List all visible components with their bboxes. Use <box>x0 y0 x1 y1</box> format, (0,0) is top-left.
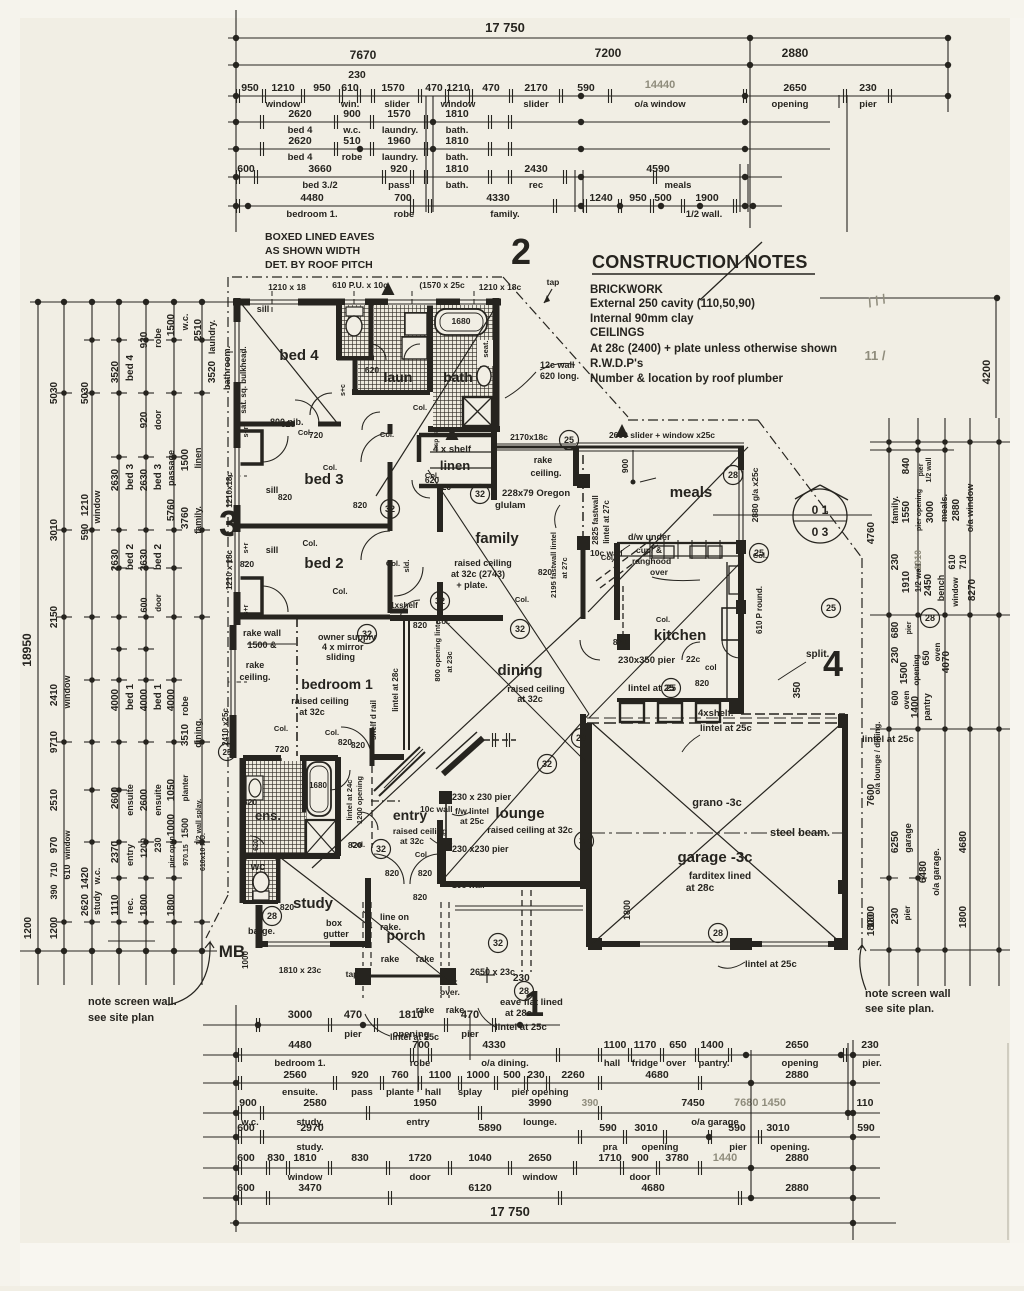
svg-text:raised ceiling at 32c: raised ceiling at 32c <box>487 825 573 835</box>
lounge left lower wall <box>437 820 443 884</box>
svg-text:pier: pier <box>344 1029 362 1040</box>
bedroom1 bottom area walls <box>243 755 281 761</box>
svg-text:8270: 8270 <box>967 578 978 601</box>
ensuite hatched floor <box>246 761 302 853</box>
svg-text:500: 500 <box>503 1069 521 1081</box>
svg-text:ensuite: ensuite <box>153 784 163 816</box>
svg-text:2580: 2580 <box>303 1097 327 1109</box>
svg-text:o/a garage.: o/a garage. <box>931 848 941 896</box>
svg-text:4330: 4330 <box>482 1039 506 1051</box>
svg-text:raised ceiling: raised ceiling <box>393 826 447 836</box>
svg-text:1550: 1550 <box>901 500 912 523</box>
svg-text:rake: rake <box>246 660 265 670</box>
svg-text:7200: 7200 <box>595 46 622 60</box>
svg-text:1210: 1210 <box>446 82 470 94</box>
svg-text:R.W.D.P's: R.W.D.P's <box>590 358 643 370</box>
svg-text:820: 820 <box>243 797 257 807</box>
hall family door arc <box>394 567 423 596</box>
family top window wall <box>497 446 576 449</box>
svg-text:11 /: 11 / <box>865 348 886 363</box>
svg-text:door: door <box>409 1172 430 1183</box>
garage window bottom <box>640 941 730 948</box>
svg-text:rake: rake <box>416 1005 435 1015</box>
svg-text:230: 230 <box>861 1039 879 1051</box>
dining X diagonal b extended <box>312 616 582 868</box>
svg-text:1500: 1500 <box>180 448 191 471</box>
svg-text:28: 28 <box>713 928 723 938</box>
svg-text:470: 470 <box>344 1009 362 1021</box>
kitchen diagonal <box>589 562 741 718</box>
svg-text:bed 3./2: bed 3./2 <box>302 180 337 191</box>
svg-text:1800: 1800 <box>622 900 632 920</box>
svg-text:sill: sill <box>257 304 270 314</box>
svg-text:lintel at 28c: lintel at 28c <box>391 668 400 712</box>
svg-text:lounge: lounge <box>495 805 544 822</box>
svg-text:shelf d rail: shelf d rail <box>369 700 378 740</box>
svg-text:1/2 wall: 1/2 wall <box>926 457 933 482</box>
svg-text:lintel at 25c: lintel at 25c <box>862 734 914 745</box>
svg-text:At 28c (2400) + plate unless: At 28c (2400) + plate unless otherwise s… <box>590 343 837 355</box>
svg-text:970.15: 970.15 <box>183 844 190 866</box>
ens wc door arc <box>250 836 264 844</box>
svg-text:pier.: pier. <box>862 1058 882 1069</box>
svg-text:ranghood: ranghood <box>632 556 671 566</box>
svg-text:2600: 2600 <box>110 786 121 809</box>
svg-text:7680 1450: 7680 1450 <box>734 1097 786 1109</box>
svg-text:28: 28 <box>576 733 586 743</box>
bed4 wc divider <box>336 302 342 360</box>
svg-text:bench: bench <box>936 575 946 602</box>
corner diagonal 2 <box>700 242 762 300</box>
svg-text:820: 820 <box>695 678 709 688</box>
svg-text:farditex lined: farditex lined <box>689 871 751 882</box>
svg-text:32: 32 <box>475 489 485 499</box>
svg-text:bed 1: bed 1 <box>153 684 164 711</box>
svg-text:28: 28 <box>267 911 277 921</box>
svg-text:820: 820 <box>418 868 432 878</box>
svg-text:350: 350 <box>792 681 803 698</box>
svg-text:Col.: Col. <box>332 587 347 596</box>
left outer wall upper <box>234 298 241 625</box>
garage X diagonal b <box>592 723 842 944</box>
svg-text:sill: sill <box>266 485 279 495</box>
svg-text:32: 32 <box>515 624 525 634</box>
svg-text:590: 590 <box>599 1122 617 1134</box>
svg-text:CONSTRUCTION NOTES: CONSTRUCTION NOTES <box>592 252 808 272</box>
svg-text:3760: 3760 <box>180 506 191 529</box>
svg-text:rec: rec <box>529 180 543 191</box>
svg-text:2620: 2620 <box>80 893 91 916</box>
svg-text:900: 900 <box>343 108 361 120</box>
svg-text:4680: 4680 <box>641 1182 665 1194</box>
svg-text:18950: 18950 <box>20 633 34 667</box>
ens bottom wall <box>243 853 340 859</box>
laundry hatched floor <box>374 305 427 390</box>
svg-text:tap: tap <box>547 277 560 287</box>
svg-text:610x10 P.U.: 610x10 P.U. <box>200 833 207 871</box>
svg-text:820: 820 <box>613 637 627 647</box>
lounge rake diagonal <box>440 714 589 883</box>
svg-text:bulk: bulk <box>440 977 458 987</box>
svg-text:5030: 5030 <box>80 381 91 404</box>
svg-text:at 23c: at 23c <box>445 651 454 672</box>
svg-text:390: 390 <box>49 884 59 899</box>
svg-text:230x350 pier: 230x350 pier <box>618 655 675 666</box>
svg-text:950: 950 <box>629 192 647 204</box>
svg-text:window: window <box>951 577 960 608</box>
wc bottom step wall <box>243 898 278 904</box>
svg-text:ceiling.: ceiling. <box>530 468 561 478</box>
svg-text:seat.: seat. <box>481 340 490 357</box>
svg-text:BRICKWORK: BRICKWORK <box>590 284 664 296</box>
svg-text:14440: 14440 <box>645 79 676 91</box>
svg-text:4xshelf.: 4xshelf. <box>698 708 733 719</box>
svg-text:1xshelf: 1xshelf <box>390 601 418 610</box>
svg-text:at 32c (2743): at 32c (2743) <box>451 569 505 579</box>
svg-text:s+c: s+c <box>340 384 347 396</box>
svg-text:passage: passage <box>166 450 176 486</box>
svg-text:610 P round.: 610 P round. <box>755 586 764 634</box>
svg-text:cup/ &: cup/ & <box>636 545 662 555</box>
svg-text:meals: meals <box>670 484 713 501</box>
entry double door arcs <box>374 854 404 884</box>
extra leader arrows <box>612 545 630 562</box>
svg-text:2630: 2630 <box>139 548 150 571</box>
svg-text:32: 32 <box>385 504 395 514</box>
svg-text:32: 32 <box>376 844 386 854</box>
svg-text:study: study <box>293 895 334 912</box>
svg-text:6120: 6120 <box>468 1182 492 1194</box>
svg-text:opening: opening <box>772 99 809 110</box>
svg-text:820: 820 <box>413 892 427 902</box>
leader arrows curved <box>168 942 214 1005</box>
svg-text:230: 230 <box>527 1069 545 1081</box>
svg-text:4070: 4070 <box>941 650 952 673</box>
svg-text:door: door <box>153 410 163 430</box>
svg-text:9710: 9710 <box>49 730 60 753</box>
kitchen right bench line <box>726 562 728 700</box>
svg-text:12c wall: 12c wall <box>540 360 575 370</box>
wc toilet <box>253 891 269 900</box>
svg-text:820: 820 <box>351 740 365 750</box>
svg-text:2450: 2450 <box>923 573 934 596</box>
svg-text:4760: 4760 <box>866 521 877 544</box>
svg-text:pass: pass <box>351 1087 373 1098</box>
svg-text:DET. BY ROOF PITCH: DET. BY ROOF PITCH <box>265 259 373 271</box>
svg-text:3520: 3520 <box>110 360 121 383</box>
svg-text:650: 650 <box>669 1039 687 1051</box>
svg-text:1950: 1950 <box>413 1097 437 1109</box>
svg-text:note screen wall: note screen wall <box>865 988 951 1000</box>
svg-text:f/w lintel: f/w lintel <box>455 806 489 816</box>
bath right outer wall <box>493 298 500 432</box>
svg-text:w.c.: w.c. <box>92 868 102 886</box>
svg-text:3010: 3010 <box>49 518 60 541</box>
svg-text:230 x 230 pier: 230 x 230 pier <box>452 792 512 802</box>
svg-text:bed 2: bed 2 <box>153 544 164 571</box>
svg-text:pantry: pantry <box>922 693 932 721</box>
svg-text:1720: 1720 <box>408 1152 432 1164</box>
svg-text:at 28c: at 28c <box>686 883 715 894</box>
scale circle 01 03 <box>793 489 847 543</box>
svg-text:robe: robe <box>410 1058 431 1069</box>
svg-text:lintel at 25c: lintel at 25c <box>745 959 797 970</box>
svg-text:4680: 4680 <box>958 830 969 853</box>
wc east wall <box>276 856 281 903</box>
svg-text:820: 820 <box>240 559 254 569</box>
svg-text:1810: 1810 <box>445 135 469 147</box>
ens tub divider <box>302 758 307 820</box>
svg-text:230: 230 <box>890 553 901 570</box>
svg-text:slider: slider <box>523 99 549 110</box>
svg-text:pier: pier <box>918 463 925 476</box>
wc hatched floor top <box>342 305 369 356</box>
rake wall 1500 arrow <box>247 643 296 645</box>
svg-text:door: door <box>154 594 163 612</box>
svg-text:1810 x 23c: 1810 x 23c <box>279 965 322 975</box>
svg-text:3780: 3780 <box>665 1152 689 1164</box>
svg-text:1100: 1100 <box>429 1069 452 1081</box>
svg-text:Col.: Col. <box>461 425 475 434</box>
window openings top wall <box>250 299 298 306</box>
svg-text:o/a lounge / dining.: o/a lounge / dining. <box>873 722 882 795</box>
lounge south window line <box>455 905 583 907</box>
svg-text:3660: 3660 <box>308 163 332 175</box>
svg-text:plante: plante <box>386 1087 414 1098</box>
svg-text:920: 920 <box>139 331 150 348</box>
svg-text:25: 25 <box>826 603 836 613</box>
svg-text:610: 610 <box>341 82 359 94</box>
svg-text:590: 590 <box>577 82 595 94</box>
family left wall segments <box>437 486 443 532</box>
outer wall top <box>233 299 501 306</box>
study bottom wall <box>259 941 366 947</box>
svg-text:s+r: s+r <box>243 542 250 553</box>
svg-text:entry: entry <box>406 1117 430 1128</box>
svg-text:3000: 3000 <box>925 500 936 523</box>
svg-text:2510: 2510 <box>49 788 60 811</box>
svg-text:1910: 1910 <box>913 550 923 570</box>
svg-text:4480: 4480 <box>288 1039 312 1051</box>
svg-text:lintel at 25c: lintel at 25c <box>495 1022 547 1033</box>
svg-text:Col.: Col. <box>425 471 439 480</box>
garage left wall <box>586 723 592 947</box>
svg-text:rec.: rec. <box>125 898 135 914</box>
left outer wall mid <box>230 625 237 758</box>
lounge bottom wall <box>440 881 583 887</box>
svg-text:meals: meals <box>665 180 692 191</box>
svg-text:wc: wc <box>250 861 266 873</box>
svg-text:820: 820 <box>413 620 427 630</box>
svg-text:2880: 2880 <box>951 498 962 521</box>
svg-text:5890: 5890 <box>478 1122 502 1134</box>
svg-text:dining.: dining. <box>193 718 203 748</box>
svg-text:600: 600 <box>890 690 900 705</box>
svg-text:Col.: Col. <box>386 559 400 568</box>
svg-text:590: 590 <box>857 1122 875 1134</box>
svg-text:lintel at 24c: lintel at 24c <box>345 780 354 821</box>
svg-text:7450: 7450 <box>681 1097 705 1109</box>
svg-text:1680: 1680 <box>452 316 471 326</box>
svg-text:32: 32 <box>362 629 372 639</box>
svg-text:2650: 2650 <box>785 1039 809 1051</box>
svg-text:4680: 4680 <box>645 1069 669 1081</box>
svg-text:Col.: Col. <box>415 850 429 859</box>
svg-text:1800: 1800 <box>866 905 877 928</box>
svg-text:ens.: ens. <box>255 808 281 823</box>
svg-text:bed 2: bed 2 <box>125 544 136 571</box>
laundry machines white <box>405 313 427 335</box>
svg-text:Internal 90mm clay: Internal 90mm clay <box>590 313 694 325</box>
svg-text:note screen wall.: note screen wall. <box>88 996 177 1008</box>
svg-text:390: 390 <box>582 1098 599 1109</box>
svg-text:25: 25 <box>564 435 574 445</box>
svg-text:steel beam.: steel beam. <box>770 827 830 839</box>
svg-text:500: 500 <box>654 192 672 204</box>
bedroom1 right sliding wall <box>403 618 405 750</box>
svg-text:2650: 2650 <box>528 1152 552 1164</box>
meals right wall <box>738 447 744 562</box>
svg-text:family.: family. <box>193 506 203 534</box>
svg-text:32: 32 <box>542 759 552 769</box>
svg-text:1800: 1800 <box>139 893 150 916</box>
svg-text:1210x18c: 1210x18c <box>225 472 234 508</box>
svg-text:glulam: glulam <box>495 500 526 511</box>
wc toilet top <box>346 307 363 316</box>
svg-text:1050: 1050 <box>166 778 177 801</box>
svg-text:3520: 3520 <box>207 360 218 383</box>
porch diagonal <box>363 911 449 981</box>
svg-text:1680: 1680 <box>309 781 327 790</box>
top dimension block <box>228 37 950 39</box>
passage east wall segments <box>388 424 393 434</box>
svg-text:pier open: pier open <box>169 836 176 868</box>
svg-text:2825 fastwall: 2825 fastwall <box>591 495 600 544</box>
top block verticals <box>235 10 237 232</box>
bed3 bed2 divider <box>238 524 390 529</box>
svg-text:rake: rake <box>381 954 400 964</box>
svg-text:lintel at 25c: lintel at 25c <box>700 723 752 734</box>
svg-text:rake: rake <box>534 455 553 465</box>
svg-text:dining: dining <box>498 662 543 679</box>
lounge right wall <box>580 714 586 889</box>
svg-text:1000: 1000 <box>166 813 177 836</box>
svg-text:1910: 1910 <box>901 570 912 593</box>
ensuite shower X <box>306 820 336 854</box>
svg-text:opening: opening <box>912 654 921 685</box>
svg-text:820: 820 <box>538 567 552 577</box>
window centerline dashes top <box>271 291 273 312</box>
svg-text:2170x18c: 2170x18c <box>510 432 548 442</box>
eaves dashed boundary <box>232 276 503 278</box>
svg-text:4000: 4000 <box>166 688 177 711</box>
svg-text:610: 610 <box>62 864 72 879</box>
svg-text:840: 840 <box>901 457 912 474</box>
svg-text:4000: 4000 <box>110 688 121 711</box>
family kitchen divider dashdot <box>582 455 584 545</box>
svg-text:at 28c: at 28c <box>505 1008 532 1019</box>
svg-text:box: box <box>326 918 342 928</box>
svg-text:230: 230 <box>348 69 366 81</box>
svg-text:bed 4: bed 4 <box>288 152 314 163</box>
svg-text:hall: hall <box>604 1058 620 1069</box>
svg-text:AS SHOWN WIDTH: AS SHOWN WIDTH <box>265 245 360 257</box>
svg-text:garage: garage <box>903 823 913 853</box>
svg-text:bathroom.: bathroom. <box>222 346 232 390</box>
svg-text:2630: 2630 <box>110 468 121 491</box>
svg-text:920: 920 <box>390 163 408 175</box>
svg-text:s+r: s+r <box>243 604 250 615</box>
svg-text:0 3: 0 3 <box>812 525 829 539</box>
svg-text:(1570 x 25c: (1570 x 25c <box>419 280 465 290</box>
svg-text:1210 x 18c: 1210 x 18c <box>225 549 234 590</box>
svg-text:1210 x 18: 1210 x 18 <box>268 282 306 292</box>
svg-text:620 long.: 620 long. <box>540 371 579 381</box>
study right wall <box>365 878 371 948</box>
svg-text:Col.: Col. <box>656 615 670 624</box>
svg-text:raised ceiling: raised ceiling <box>291 696 349 706</box>
svg-text:470: 470 <box>482 82 500 94</box>
svg-text:bedroom 1: bedroom 1 <box>301 676 373 692</box>
svg-text:1500: 1500 <box>180 818 190 838</box>
svg-text:ensuite: ensuite <box>125 784 135 816</box>
svg-text:1210 x 18c: 1210 x 18c <box>479 282 522 292</box>
svg-text:family.: family. <box>890 496 900 524</box>
svg-text:720: 720 <box>275 744 289 754</box>
svg-text:2410: 2410 <box>49 683 60 706</box>
svg-text:2970: 2970 <box>300 1122 324 1134</box>
family bottom wall <box>390 615 503 621</box>
svg-text:17 750: 17 750 <box>485 20 525 35</box>
svg-text:over.: over. <box>440 987 460 997</box>
svg-text:1570: 1570 <box>387 108 411 120</box>
svg-text:1420: 1420 <box>80 866 91 889</box>
svg-text:510: 510 <box>343 135 361 147</box>
kitchen sink rects <box>690 546 706 558</box>
svg-text:2620: 2620 <box>288 108 312 120</box>
svg-text:3010: 3010 <box>766 1122 790 1134</box>
svg-text:230: 230 <box>859 82 877 94</box>
svg-text:2260: 2260 <box>561 1069 585 1081</box>
svg-text:pier: pier <box>906 621 913 634</box>
kitchen bench top <box>617 542 741 544</box>
svg-text:600: 600 <box>237 1182 255 1194</box>
svg-text:820: 820 <box>280 902 294 912</box>
svg-text:lintel at 25c: lintel at 25c <box>390 1032 439 1042</box>
svg-text:col: col <box>705 663 717 672</box>
study diagonal <box>281 858 372 928</box>
svg-text:600: 600 <box>237 1152 255 1164</box>
ens wc outer wall <box>240 758 247 903</box>
bath tub <box>435 309 487 335</box>
bath hatched floor <box>433 305 493 427</box>
svg-text:710: 710 <box>49 862 59 877</box>
meals kitchen inner post <box>577 474 590 488</box>
svg-text:rake: rake <box>446 1005 465 1015</box>
svg-text:1570: 1570 <box>381 82 405 94</box>
svg-text:2650: 2650 <box>783 82 807 94</box>
svg-text:see site plan.: see site plan. <box>865 1003 934 1015</box>
svg-text:1110: 1110 <box>110 894 121 916</box>
svg-text:sliding: sliding <box>326 652 355 662</box>
svg-text:sill: sill <box>266 545 279 555</box>
svg-text:2430: 2430 <box>524 163 548 175</box>
svg-text:32: 32 <box>435 596 445 606</box>
svg-text:planter: planter <box>181 775 190 802</box>
svg-text:linen: linen <box>193 447 203 468</box>
svg-text:raised ceiling: raised ceiling <box>507 684 565 694</box>
bedroom1 robe wall <box>371 754 404 760</box>
